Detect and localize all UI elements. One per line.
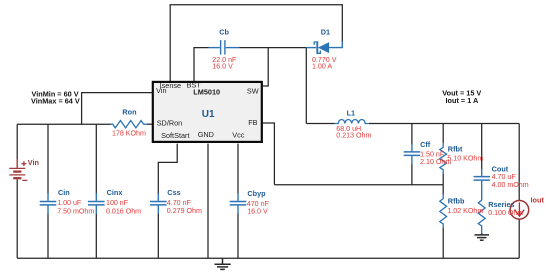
svg-text:Css: Css bbox=[167, 188, 180, 197]
svg-text:0.213 Ohm: 0.213 Ohm bbox=[336, 132, 371, 140]
svg-text:470 nF: 470 nF bbox=[247, 200, 270, 208]
svg-text:0.100 Ohm: 0.100 Ohm bbox=[488, 209, 523, 217]
svg-text:7.50 mOhm: 7.50 mOhm bbox=[57, 208, 94, 216]
svg-text:SD/Ron: SD/Ron bbox=[157, 119, 183, 128]
svg-text:Vin: Vin bbox=[28, 158, 39, 167]
svg-text:Iout: Iout bbox=[531, 195, 545, 204]
svg-text:Rseries: Rseries bbox=[488, 200, 514, 209]
svg-text:FB: FB bbox=[248, 118, 257, 127]
svg-text:GND: GND bbox=[198, 130, 214, 139]
svg-text:Cinx: Cinx bbox=[107, 188, 123, 197]
svg-text:Cbyp: Cbyp bbox=[247, 189, 266, 198]
svg-text:SW: SW bbox=[247, 87, 259, 96]
svg-text:4.70 nF: 4.70 nF bbox=[167, 199, 192, 207]
svg-text:1.00 A: 1.00 A bbox=[312, 62, 332, 70]
svg-text:5.10 KOhm: 5.10 KOhm bbox=[447, 154, 483, 162]
svg-text:VinMax = 64 V: VinMax = 64 V bbox=[31, 96, 80, 105]
svg-text:Rfbt: Rfbt bbox=[448, 144, 463, 153]
svg-text:0.279 Ohm: 0.279 Ohm bbox=[167, 207, 202, 215]
svg-text:D1: D1 bbox=[321, 28, 330, 37]
svg-text:Rfbb: Rfbb bbox=[448, 196, 465, 205]
svg-text:4.00 mOhm: 4.00 mOhm bbox=[492, 181, 529, 189]
svg-text:1.00 uF: 1.00 uF bbox=[57, 199, 82, 207]
svg-text:U1: U1 bbox=[202, 109, 215, 120]
svg-text:Iout = 1 A: Iout = 1 A bbox=[446, 96, 480, 105]
svg-text:Cin: Cin bbox=[58, 188, 70, 197]
svg-text:16.0 V: 16.0 V bbox=[247, 208, 268, 216]
svg-text:L1: L1 bbox=[347, 108, 356, 117]
svg-text:Cb: Cb bbox=[219, 28, 229, 37]
svg-text:100 nF: 100 nF bbox=[106, 199, 129, 207]
svg-text:Ron: Ron bbox=[122, 108, 136, 117]
svg-text:0.016 Ohm: 0.016 Ohm bbox=[106, 208, 141, 216]
svg-text:LM5010: LM5010 bbox=[193, 87, 220, 96]
svg-text:Vin: Vin bbox=[156, 86, 166, 95]
svg-text:1.02 KOhm: 1.02 KOhm bbox=[447, 207, 483, 215]
svg-text:Vcc: Vcc bbox=[232, 130, 245, 139]
svg-text:Cff: Cff bbox=[420, 140, 431, 149]
svg-text:SoftStart: SoftStart bbox=[161, 131, 189, 140]
svg-text:4.70 uF: 4.70 uF bbox=[492, 173, 517, 181]
svg-text:16.0 V: 16.0 V bbox=[212, 63, 233, 71]
svg-text:178 KOhm: 178 KOhm bbox=[112, 130, 146, 138]
